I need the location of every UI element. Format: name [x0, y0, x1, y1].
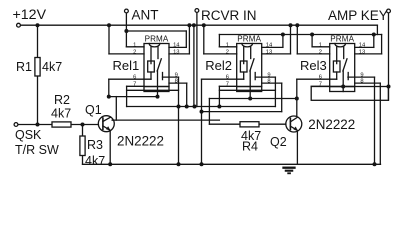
svg-text:1: 1 [319, 42, 322, 48]
svg-text:8: 8 [360, 79, 363, 85]
svg-text:T/R SW: T/R SW [15, 143, 59, 157]
svg-text:6: 6 [319, 75, 322, 81]
svg-text:R3: R3 [87, 138, 103, 152]
svg-text:PRMA: PRMA [145, 35, 169, 44]
svg-text:7: 7 [319, 82, 322, 88]
svg-text:ANT: ANT [132, 8, 159, 23]
svg-text:R1: R1 [16, 60, 32, 74]
svg-text:R4: R4 [242, 140, 258, 154]
svg-text:PRMA: PRMA [330, 35, 354, 44]
svg-text:13: 13 [173, 49, 179, 55]
svg-text:2: 2 [226, 49, 229, 55]
svg-text:R2: R2 [54, 93, 70, 107]
svg-text:6: 6 [226, 75, 229, 81]
svg-text:PRMA: PRMA [237, 35, 261, 44]
svg-text:14: 14 [173, 43, 180, 49]
svg-text:RCVR IN: RCVR IN [201, 8, 257, 23]
svg-text:4k7: 4k7 [85, 154, 105, 168]
svg-text:1: 1 [226, 42, 229, 48]
svg-text:Rel1: Rel1 [113, 58, 140, 73]
svg-text:6: 6 [133, 75, 136, 81]
svg-text:8: 8 [267, 79, 270, 85]
svg-text:14: 14 [266, 43, 273, 49]
svg-text:Q1: Q1 [85, 103, 102, 117]
svg-text:13: 13 [266, 49, 272, 55]
svg-text:7: 7 [226, 82, 229, 88]
svg-text:AMP KEY: AMP KEY [328, 8, 388, 23]
svg-text:14: 14 [359, 43, 366, 49]
svg-text:8: 8 [175, 79, 178, 85]
svg-text:4k7: 4k7 [42, 60, 62, 74]
svg-text:2N2222: 2N2222 [308, 117, 355, 132]
svg-text:2: 2 [133, 49, 136, 55]
svg-text:2: 2 [319, 49, 322, 55]
svg-text:+12V: +12V [13, 7, 47, 23]
svg-text:13: 13 [359, 49, 365, 55]
svg-text:4k7: 4k7 [51, 107, 71, 121]
svg-text:Rel3: Rel3 [300, 58, 327, 73]
svg-text:2N2222: 2N2222 [117, 133, 164, 148]
svg-text:QSK: QSK [15, 128, 42, 142]
svg-text:1: 1 [133, 42, 136, 48]
svg-text:Rel2: Rel2 [205, 58, 232, 73]
svg-text:Q2: Q2 [270, 135, 287, 149]
svg-text:7: 7 [133, 82, 136, 88]
